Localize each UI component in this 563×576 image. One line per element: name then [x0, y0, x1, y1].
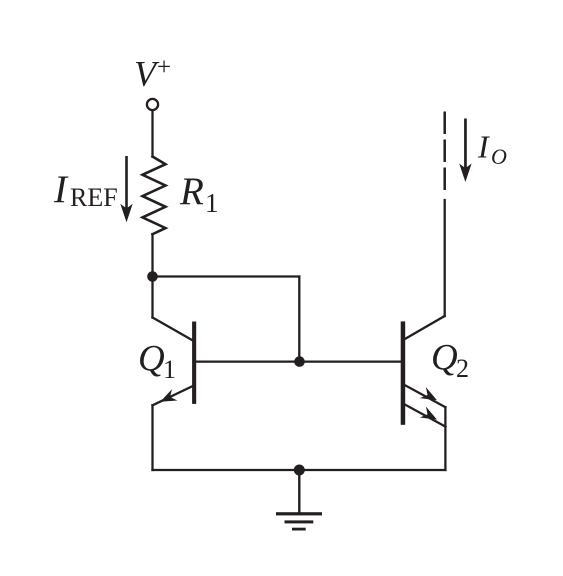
- wire: Q1 emitter vertical: [151, 405, 153, 470]
- wire: Q2 emitter 2 diagonal: [405, 405, 445, 427]
- wire: Q2 collector vertical: [444, 200, 446, 316]
- Q2 emitter 2 arrowhead: [420, 407, 437, 420]
- svg-text:Q: Q: [138, 339, 165, 380]
- wire: resistor bottom to node A: [151, 234, 153, 276]
- wire: Q1 emitter diagonal: [153, 385, 195, 405]
- ground bar 3: [292, 528, 306, 531]
- ground bar 1: [276, 512, 322, 515]
- svg-text:O: O: [491, 144, 507, 169]
- transistor Q2 base bar: [401, 321, 406, 424]
- I_REF arrowhead: [120, 204, 132, 223]
- wire: Q1 collector vertical: [151, 277, 153, 318]
- wire: Q2 emitter 1 diagonal: [405, 385, 445, 407]
- resistor R1 zigzag: [143, 157, 166, 235]
- wire: I_O dashed collector lead: [443, 112, 446, 191]
- svg-text:1: 1: [205, 188, 219, 218]
- wire: node A to right (top of mirror): [153, 275, 300, 277]
- svg-text:I: I: [477, 129, 490, 165]
- ground stem: [298, 470, 300, 513]
- svg-text:R: R: [179, 170, 204, 213]
- svg-text:Q: Q: [431, 338, 458, 379]
- wire: base rail Q1 to Q2: [195, 360, 402, 362]
- wire: down to base rail: [298, 277, 300, 362]
- ground junction dot: [294, 465, 305, 476]
- Q1 emitter arrowhead: [160, 389, 177, 402]
- I_O arrowhead: [459, 164, 471, 183]
- V+ terminal circle: [147, 99, 158, 110]
- wire: Q2 collector diagonal: [405, 316, 445, 339]
- Q2 emitter 1 arrowhead: [420, 387, 437, 400]
- node B junction dot (base rail): [294, 356, 305, 367]
- I_REF arrow line: [125, 156, 128, 211]
- I_O arrow line: [464, 119, 467, 171]
- wire: V+ terminal to resistor top: [151, 110, 153, 156]
- svg-text:1: 1: [163, 355, 176, 384]
- wire: bottom ground rail: [153, 469, 446, 471]
- wire: Q2 emitter vertical: [444, 407, 446, 470]
- transistor Q1 base bar: [192, 322, 196, 404]
- svg-text:I: I: [53, 168, 69, 211]
- wire: Q1 collector diagonal: [153, 318, 193, 341]
- svg-text:2: 2: [456, 354, 469, 383]
- ground bar 2: [285, 520, 314, 523]
- svg-text:REF: REF: [70, 183, 118, 212]
- svg-text:+: +: [157, 54, 171, 81]
- node A junction dot: [147, 271, 158, 282]
